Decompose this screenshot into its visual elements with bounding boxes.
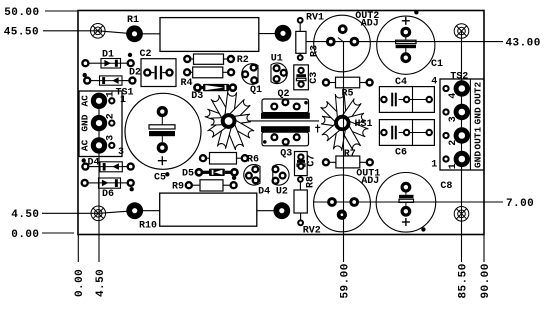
svg-text:C5: C5 xyxy=(154,172,166,183)
svg-text:R1: R1 xyxy=(127,15,139,26)
svg-text:0.00: 0.00 xyxy=(11,229,39,241)
svg-text:4.50: 4.50 xyxy=(11,209,39,221)
svg-text:C2: C2 xyxy=(139,49,151,60)
svg-text:4.50: 4.50 xyxy=(95,269,107,297)
svg-text:7.00: 7.00 xyxy=(506,198,534,210)
svg-text:R10: R10 xyxy=(139,220,157,231)
svg-text:C4: C4 xyxy=(395,77,407,88)
svg-text:ADJ: ADJ xyxy=(361,176,379,187)
svg-text:C3: C3 xyxy=(309,72,320,84)
svg-text:3: 3 xyxy=(448,116,459,122)
svg-text:2: 2 xyxy=(448,140,459,146)
svg-text:D6: D6 xyxy=(102,189,114,200)
svg-text:D1: D1 xyxy=(102,49,114,60)
svg-text:D2: D2 xyxy=(129,68,141,79)
svg-text:R4: R4 xyxy=(180,78,192,89)
svg-text:AC: AC xyxy=(80,95,91,107)
svg-text:R7: R7 xyxy=(344,149,356,160)
svg-text:RV2: RV2 xyxy=(303,225,321,236)
svg-text:GND: GND xyxy=(80,114,91,131)
svg-text:TS2: TS2 xyxy=(450,71,468,82)
svg-text:2: 2 xyxy=(105,113,116,119)
svg-text:1: 1 xyxy=(448,163,459,169)
svg-text:C6: C6 xyxy=(395,148,407,159)
svg-text:OUT2: OUT2 xyxy=(472,82,483,105)
svg-text:Q1: Q1 xyxy=(250,85,262,96)
svg-text:U1: U1 xyxy=(271,53,283,64)
svg-text:GND: GND xyxy=(472,107,483,124)
svg-text:RV1: RV1 xyxy=(306,12,324,23)
svg-text:3: 3 xyxy=(118,147,124,158)
svg-text:D4: D4 xyxy=(258,187,270,198)
svg-text:Q3: Q3 xyxy=(280,149,292,160)
svg-text:AC: AC xyxy=(80,139,91,151)
svg-text:R8: R8 xyxy=(305,176,316,188)
svg-text:3: 3 xyxy=(105,135,116,141)
svg-text:GND: GND xyxy=(472,151,483,168)
svg-text:45.50: 45.50 xyxy=(4,27,39,39)
svg-text:1: 1 xyxy=(120,95,126,106)
svg-text:D4: D4 xyxy=(87,158,99,169)
svg-text:1: 1 xyxy=(431,160,437,171)
svg-text:R6: R6 xyxy=(247,154,259,165)
svg-text:C1: C1 xyxy=(431,59,443,70)
svg-text:43.00: 43.00 xyxy=(506,37,541,49)
svg-text:HS1: HS1 xyxy=(355,119,373,130)
svg-text:C8: C8 xyxy=(440,181,452,192)
svg-text:50.00: 50.00 xyxy=(4,7,39,19)
svg-text:0.00: 0.00 xyxy=(74,269,86,297)
svg-text:4: 4 xyxy=(448,93,459,99)
svg-text:59.00: 59.00 xyxy=(339,263,351,298)
svg-text:D5: D5 xyxy=(182,169,194,180)
svg-text:U2: U2 xyxy=(276,187,288,198)
svg-text:4: 4 xyxy=(431,77,437,88)
svg-text:Q2: Q2 xyxy=(277,89,289,100)
svg-text:C7: C7 xyxy=(307,155,318,167)
svg-text:D3: D3 xyxy=(191,91,203,102)
svg-text:R2: R2 xyxy=(237,55,249,66)
svg-text:85.50: 85.50 xyxy=(457,263,469,298)
svg-text:ADJ: ADJ xyxy=(361,19,379,30)
svg-text:OUT1: OUT1 xyxy=(472,127,483,150)
svg-text:90.00: 90.00 xyxy=(480,263,492,298)
svg-text:R9: R9 xyxy=(172,182,184,193)
